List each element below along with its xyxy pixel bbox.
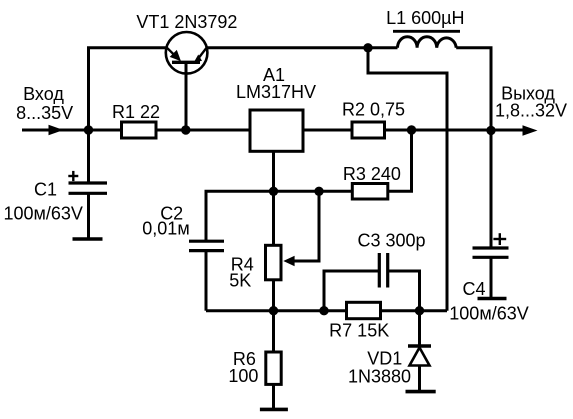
svg-text:R1 22: R1 22 [112, 102, 160, 122]
svg-text:100м/63V: 100м/63V [3, 203, 82, 223]
svg-text:R2 0,75: R2 0,75 [342, 100, 405, 120]
svg-text:C1: C1 [34, 179, 57, 199]
svg-text:LM317HV: LM317HV [236, 82, 316, 102]
svg-text:100: 100 [228, 366, 258, 386]
svg-text:8...35V: 8...35V [16, 103, 73, 123]
svg-text:C4: C4 [462, 279, 485, 299]
svg-text:VT1 2N3792: VT1 2N3792 [136, 12, 237, 32]
svg-text:Вход: Вход [23, 84, 64, 104]
svg-text:C3 300p: C3 300p [357, 231, 425, 251]
svg-text:R3 240: R3 240 [343, 164, 401, 184]
svg-text:1N3880: 1N3880 [348, 366, 411, 386]
svg-text:100м/63V: 100м/63V [449, 304, 528, 324]
svg-text:1,8...32V: 1,8...32V [495, 101, 567, 121]
svg-text:5K: 5K [229, 271, 251, 291]
svg-text:R7 15K: R7 15K [329, 320, 389, 340]
svg-text:0,01м: 0,01м [142, 218, 189, 238]
svg-text:L1 600µH: L1 600µH [386, 8, 464, 28]
